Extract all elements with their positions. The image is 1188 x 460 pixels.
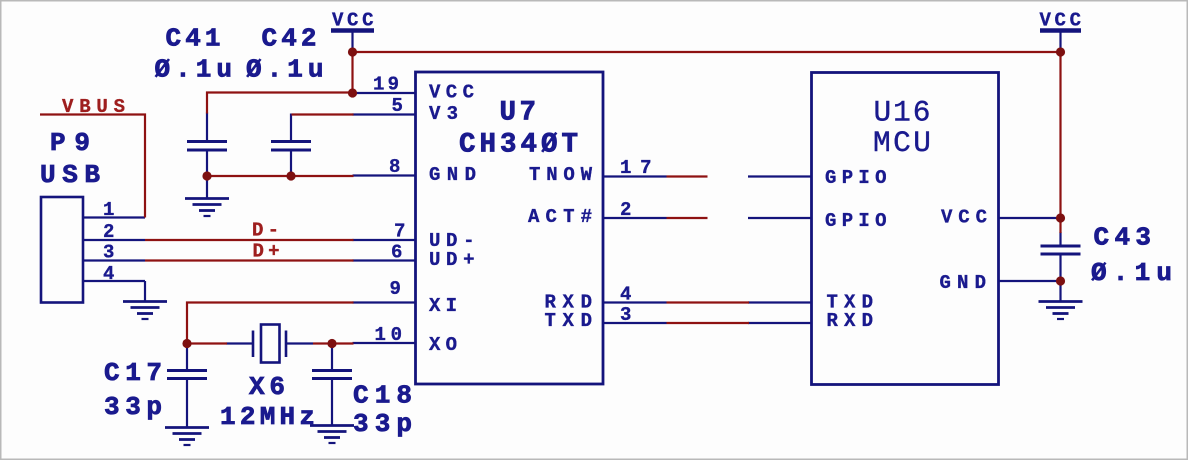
svg-text:C42: C42 [262, 24, 317, 54]
svg-text:U16: U16 [874, 96, 931, 130]
svg-text:9: 9 [390, 278, 401, 300]
svg-text:3: 3 [103, 242, 114, 264]
svg-text:4: 4 [103, 263, 114, 285]
svg-text:VCC: VCC [332, 10, 374, 32]
svg-text:MCU: MCU [873, 126, 931, 160]
svg-text:USB: USB [40, 160, 100, 190]
svg-text:5: 5 [392, 95, 403, 117]
svg-text:RXD: RXD [827, 310, 874, 332]
svg-text:6: 6 [391, 242, 402, 264]
svg-text:2: 2 [103, 221, 114, 243]
svg-text:7: 7 [394, 221, 405, 243]
svg-text:C41: C41 [166, 24, 221, 54]
svg-text:1: 1 [103, 199, 114, 221]
svg-text:4: 4 [620, 284, 631, 306]
svg-text:C18: C18 [353, 381, 412, 411]
svg-text:3: 3 [620, 304, 631, 326]
svg-text:VCC: VCC [429, 82, 474, 104]
svg-text:12MHz: 12MHz [220, 402, 315, 432]
svg-text:2: 2 [620, 199, 631, 221]
svg-text:VCC: VCC [941, 207, 987, 229]
svg-text:8: 8 [389, 156, 400, 178]
svg-text:33p: 33p [104, 392, 162, 422]
svg-text:UD+: UD+ [429, 249, 475, 271]
svg-text:GND: GND [940, 272, 987, 294]
svg-text:33p: 33p [353, 409, 412, 439]
svg-text:VCC: VCC [1040, 10, 1082, 32]
svg-text:GND: GND [429, 164, 476, 186]
svg-text:C43: C43 [1094, 223, 1152, 253]
svg-text:TXD: TXD [545, 310, 593, 332]
svg-text:C17: C17 [104, 358, 162, 388]
